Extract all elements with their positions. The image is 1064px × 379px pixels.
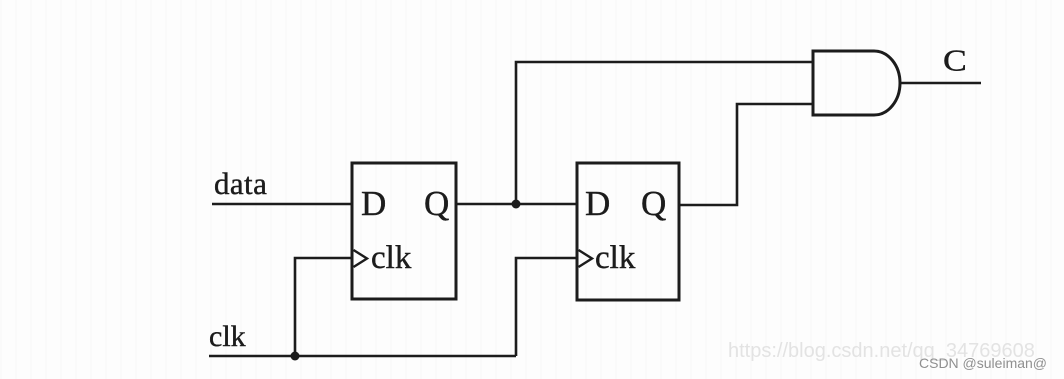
svg-text:D: D — [361, 184, 386, 223]
svg-text:D: D — [585, 184, 610, 223]
flip-flop U2 box — [577, 163, 679, 300]
wire: clk bus up to U2 clk — [516, 258, 577, 356]
svg-text:Q: Q — [641, 184, 666, 223]
wire: data input — [212, 203, 352, 206]
flip-flop U1 box — [352, 163, 456, 299]
watermark url — [728, 340, 1035, 363]
wire: clk bus up to U1 clk — [295, 258, 352, 356]
svg-text:clk: clk — [371, 240, 412, 276]
wire: clk bus bottom — [209, 355, 516, 358]
node: junction on clk bus — [291, 352, 300, 361]
svg-text:clk: clk — [209, 320, 246, 353]
wire: Q2 to AND gate lower input — [679, 104, 814, 205]
svg-text:Q: Q — [424, 184, 449, 223]
wire: junction up to AND gate upper input — [516, 62, 814, 204]
U2 clk edge-trigger triangle — [579, 250, 593, 267]
wire: AND gate output C — [899, 82, 981, 85]
svg-text:C: C — [943, 44, 967, 78]
svg-text:data: data — [214, 166, 267, 201]
wire: Q1 to D2 — [456, 203, 578, 206]
svg-text:clk: clk — [595, 240, 636, 276]
U1 clk edge-trigger triangle — [354, 250, 368, 267]
AND gate U3 — [813, 51, 900, 115]
watermark user — [919, 355, 1047, 371]
node: junction on Q1-D2 wire — [512, 200, 521, 209]
